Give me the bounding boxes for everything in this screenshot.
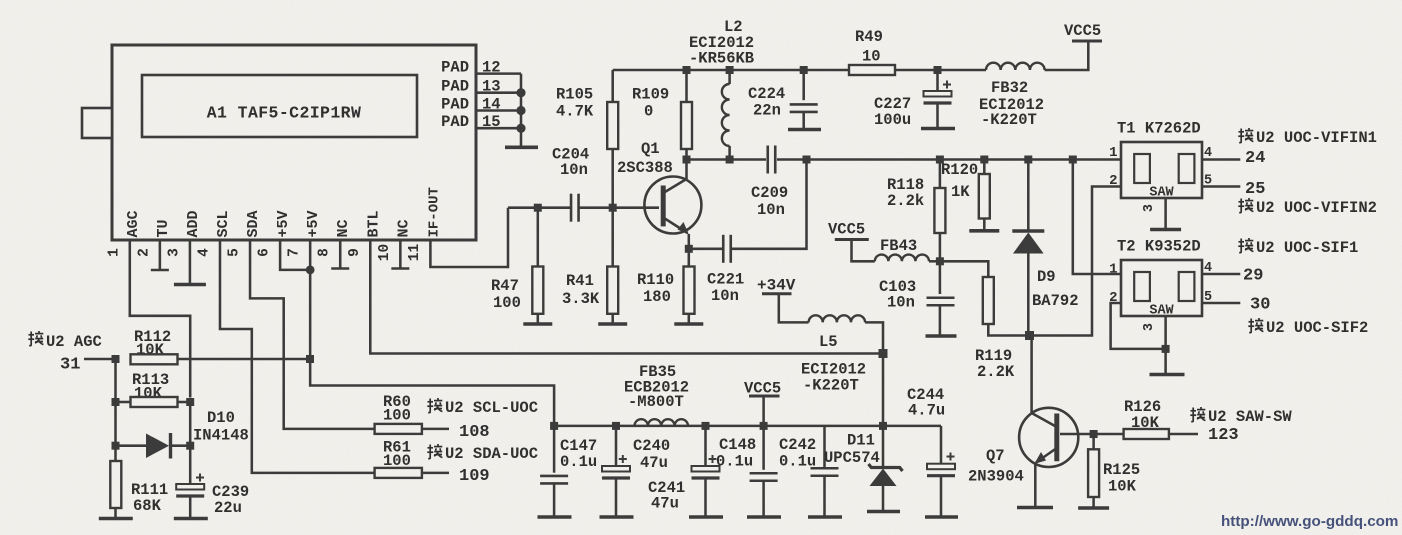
SAW filter T2 box	[1121, 260, 1202, 316]
ground (R47)	[523, 322, 552, 326]
tuner A1 TAF5-C2IP1RW outer box	[112, 45, 476, 240]
node U2 UOC-SIF2 label	[1248, 318, 1263, 333]
wire AGC node down to R113	[114, 359, 117, 402]
junction C221 riser on mid rail	[803, 156, 811, 164]
diode D10 IN4148	[116, 444, 147, 447]
wire Q7 base to R125/R126 node	[1060, 433, 1094, 436]
ground (C240)	[600, 515, 634, 519]
resistor R120 1K	[983, 160, 986, 175]
junction R47 top	[534, 204, 542, 212]
junction PAD 15	[516, 124, 525, 133]
node U2 UOC-SIF1 label	[1238, 238, 1253, 253]
diode D9 BA792	[1027, 160, 1030, 231]
ground (PAD bus)	[505, 146, 538, 150]
wire C204 to Q1 base	[579, 206, 660, 209]
junction R113 left	[112, 398, 120, 406]
junction R112/+5V (pin7 line)	[306, 355, 314, 363]
ground (C244)	[925, 515, 958, 519]
power VCC5 (top right)	[1072, 40, 1102, 43]
ground (C103 termination bar)	[926, 334, 957, 338]
wire node X to T1 pin2 riser	[1030, 187, 1122, 336]
junction C227 top	[934, 66, 942, 74]
wire pin11 IF-OUT to base line	[430, 208, 508, 267]
ground (T2 pin3)	[1164, 349, 1167, 373]
capacitor C148 0.1u	[762, 426, 765, 470]
ground (C239)	[174, 517, 208, 521]
resistor R119 2.2K	[983, 277, 994, 324]
inductor FB35 ECB2012-M800T	[635, 419, 689, 426]
tuner pin 12 PAD lead	[476, 72, 521, 75]
wire bottom VCC5 rail	[554, 425, 941, 428]
wire FB43 to R118 node	[929, 260, 940, 263]
inductor L5 ECI2012-K220T	[809, 315, 866, 322]
wire R61 to 109	[422, 472, 449, 475]
wire node down to D10	[114, 402, 117, 446]
wire IF-OUT node	[508, 206, 572, 209]
capacitor C224 22n	[802, 70, 805, 100]
pin 2 TU stub (open end bar)	[159, 240, 162, 270]
SAW filter T1 box	[1121, 142, 1202, 198]
tuner pin 15 PAD lead	[476, 127, 521, 130]
pin 6 +5V stub joining pin 7	[280, 240, 310, 270]
ground (R111)	[99, 517, 133, 521]
T2 pin3 lead	[1164, 316, 1167, 349]
wire Q1 emitter down	[688, 234, 691, 249]
zener diode D11 UPC574	[882, 426, 885, 467]
junction Q7 base node	[1090, 430, 1098, 438]
node 108 SCL-UOC label	[427, 398, 442, 413]
junction T2 pin1 riser top	[1069, 156, 1077, 164]
T1 pin5 lead	[1202, 185, 1240, 188]
node 31 AGC input label	[28, 331, 43, 346]
ground (R120)	[969, 229, 999, 233]
resistor R105 4.7K	[611, 70, 614, 102]
junction Q1 emitter node	[685, 245, 693, 253]
capacitor C240 47u electrolytic	[615, 426, 618, 466]
junction T2 pin3/pin2	[1162, 345, 1170, 353]
ground (R110)	[674, 322, 703, 326]
SAW filter T2 inner pads	[1134, 272, 1150, 301]
pin 8 NC stub (open end bar)	[339, 240, 342, 268]
resistor R41 3.3K	[611, 208, 614, 267]
wire L5 to BTL node	[865, 322, 883, 353]
capacitor C244 4.7u electrolytic	[940, 426, 943, 464]
junction D11/L5 on rail	[879, 422, 887, 430]
wire 31 to R112	[84, 358, 116, 361]
junction C241	[702, 422, 710, 430]
T2 pin5 lead	[1202, 302, 1240, 305]
wire Q7 emitter to ground	[1034, 463, 1037, 506]
wire T2 pin1 riser	[1073, 160, 1121, 275]
wire Q1 collector up	[685, 160, 688, 180]
ground (pin 3)	[174, 283, 206, 287]
capacitor C239 22u electrolytic	[196, 477, 204, 479]
junction pin6-pin7 +5V	[306, 266, 315, 275]
pin 10 NC stub (open end bar)	[399, 240, 402, 268]
resistor R49 10	[849, 65, 895, 75]
wire FB32 to VCC5	[1045, 42, 1089, 70]
tuner pin 14 PAD lead	[476, 109, 521, 112]
wire L5 node down to rail	[882, 354, 885, 426]
wire pin7 +5V down to rail	[310, 240, 554, 426]
resistor R112	[131, 354, 178, 364]
inductor FB43	[875, 255, 929, 262]
wire pin4 SCL zigzag down	[220, 240, 375, 473]
capacitor C241 47u electrolytic	[704, 426, 707, 466]
ground (C242)	[808, 515, 842, 519]
junction C240	[612, 422, 620, 430]
T2 pin2 wire to ground	[1111, 303, 1163, 349]
node U2 UOC-VIFIN1 label	[1238, 128, 1253, 143]
node 109 SDA-UOC label	[427, 444, 442, 459]
ground (C224 termination bar)	[788, 128, 821, 132]
ground (D11)	[867, 510, 900, 514]
junction L2 bottom	[726, 156, 734, 164]
inductor L2 ECI2012-KR56KB	[722, 84, 730, 146]
wire node X down to Q7 collector	[1030, 336, 1033, 414]
ground (C227 termination bar)	[921, 127, 955, 131]
capacitor C227 100u electrolytic	[936, 70, 939, 91]
wire C221 to collector rail riser	[731, 160, 807, 249]
wire pin5 SDA zigzag down	[250, 240, 375, 429]
transistor Q1 2SC388	[644, 177, 701, 234]
ground (C241)	[689, 515, 723, 519]
ground (Q7 emitter)	[1017, 506, 1053, 510]
ground (R41)	[598, 322, 627, 326]
resistor R111 68K	[114, 446, 117, 461]
wire pin1 AGC down-jog	[130, 240, 190, 398]
tuner inner label box	[142, 75, 417, 137]
wire node to R119	[940, 261, 988, 277]
junction R109 top	[683, 66, 691, 74]
junction PAD 14	[516, 106, 525, 115]
wire D10 line down to C239	[189, 402, 192, 484]
node U2 UOC-VIFIN2 label	[1238, 198, 1253, 213]
wire VCC5 to FB43	[852, 240, 875, 262]
T1 pin4 lead	[1202, 158, 1240, 161]
transistor Q7 2N3904	[1019, 408, 1078, 467]
ground (T1 pin3)	[1150, 228, 1181, 232]
junction R105/R41 on base line	[609, 204, 617, 212]
wire pin9 BTL to L5 node	[370, 240, 883, 354]
wire top supply rail	[613, 69, 849, 72]
junction node X (D9/R119/Q7/T1-2)	[1025, 331, 1034, 340]
junction L5/BTL node	[879, 349, 888, 358]
wire R112 to +5V line	[178, 358, 311, 361]
tuner pin 13 PAD lead	[476, 91, 521, 94]
junction R118 top	[936, 156, 944, 164]
junction VCC5/rail	[760, 422, 768, 430]
wire +34V to L5	[779, 294, 809, 323]
capacitor C204 10n	[570, 194, 573, 222]
resistor R61 100	[375, 468, 422, 478]
wire R60 to 108	[422, 428, 449, 431]
ground (C147)	[538, 515, 572, 519]
junction R113 right	[186, 398, 194, 406]
resistor R109 0 ohm	[685, 70, 688, 102]
resistor R47 100	[537, 208, 540, 267]
capacitor C221 10n	[689, 248, 724, 251]
resistor R60 100	[375, 424, 422, 434]
junction D10 cathode	[186, 442, 194, 450]
junction R118/C103/FB43 node	[936, 257, 944, 265]
resistor R110 180	[688, 249, 691, 267]
junction R120 top	[980, 156, 988, 164]
T1 pin3 lead to ground	[1164, 198, 1167, 228]
capacitor C147 0.1u	[553, 426, 556, 473]
SAW filter T1 inner pads	[1134, 154, 1150, 183]
capacitor C103 10n	[939, 261, 942, 294]
inductor FB32 ECI2012-K220T	[986, 63, 1045, 70]
ground (C148)	[747, 515, 781, 519]
capacitor C209 10n	[766, 146, 769, 174]
junction D10 anode	[112, 442, 120, 450]
junction L2 top	[726, 66, 734, 74]
resistor R118 2.2k	[939, 160, 942, 189]
PAD bus wire	[520, 74, 523, 146]
tuner antenna tab	[82, 108, 112, 138]
node 123 SAW-SW label	[1190, 407, 1205, 422]
ground (R125)	[1078, 506, 1109, 510]
junction AGC node	[112, 355, 120, 363]
junction C224 top	[800, 66, 808, 74]
wire mid rail (collector node to T1)	[687, 158, 767, 161]
resistor R125 10K	[1092, 434, 1095, 449]
resistor R126 10K	[1094, 433, 1124, 436]
capacitor C242 0.1u	[823, 426, 826, 468]
junction D9 top	[1024, 156, 1032, 164]
T2 pin4 lead	[1202, 273, 1240, 276]
junction C147	[550, 422, 558, 430]
pin 3 ADD stub to ground	[189, 240, 192, 284]
junction PAD 13	[516, 88, 525, 97]
junction collector/R109 bottom	[683, 156, 691, 164]
resistor R113	[131, 397, 178, 407]
